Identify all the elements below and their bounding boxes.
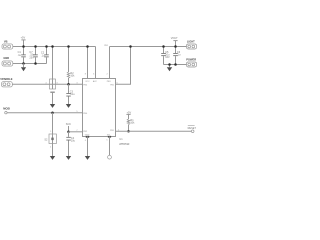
svg-text:MOSI: MOSI: [3, 106, 10, 110]
pin stub OUT (top): [109, 47, 111, 79]
ground arrow below S2: [50, 156, 55, 160]
junction dot VOUT at x=163.5: [162, 45, 165, 48]
svg-text:POWER: POWER: [186, 57, 196, 61]
svg-text:16V: 16V: [165, 56, 170, 59]
capacitor C6: [173, 47, 181, 65]
ground arrow below C4: [66, 156, 71, 160]
junction dot VOUT at riser: [129, 45, 132, 48]
power flag +5V: [21, 36, 26, 46]
net stub MOSI: [3, 106, 82, 114]
wire C4 net to IC: [69, 131, 83, 133]
capacitor C7: [29, 47, 37, 64]
svg-text:RESET: RESET: [188, 127, 197, 130]
svg-text:10u: 10u: [71, 140, 76, 143]
IC U1 (microcontroller): [83, 79, 116, 137]
junction dots rails at x=35.5: [34, 45, 37, 48]
wire output ground rail: [164, 64, 187, 66]
junction dot RESET net: [127, 130, 130, 133]
junction dot VOUT at x=175.5: [174, 45, 177, 48]
pin stub AVCC (top): [95, 47, 97, 79]
ground arrow below S1: [50, 104, 55, 108]
junction dot MOSI net: [51, 111, 54, 114]
capacitor C2: [41, 47, 49, 64]
resistor R2 pullup: [67, 47, 75, 85]
pin GND (bottom): [86, 136, 89, 138]
junction dots rails at x=23.5: [22, 45, 25, 48]
svg-text:SCK: SCK: [66, 123, 71, 126]
svg-text:25V: 25V: [29, 56, 34, 59]
capacitor C5: [161, 47, 170, 65]
junction dot C4 net: [67, 131, 70, 134]
junction dot rail at x=46.5: [45, 45, 48, 48]
ground arrow output: [167, 63, 172, 71]
svg-text:VOUT: VOUT: [171, 37, 178, 40]
junction dot rail at x=68.5: [67, 45, 70, 48]
svg-text:VPADDLE: VPADDLE: [0, 77, 12, 81]
svg-text:VB: VB: [4, 39, 8, 43]
pin XTAL (bottom) with open end: [108, 136, 111, 138]
svg-text:.1u: .1u: [41, 54, 45, 57]
svg-text:.1u: .1u: [177, 54, 181, 57]
net label RESET (overbar): [188, 126, 197, 130]
ground arrow below IC: [85, 156, 90, 160]
wire GND rail: [13, 63, 47, 65]
wire VPADDLE to IC: [12, 83, 82, 85]
net stub RESET (open circle end): [191, 130, 194, 133]
wire +5V rail: [13, 46, 96, 48]
switch S2 (box component): [44, 134, 56, 144]
wire VOUT net: [110, 46, 187, 48]
svg-text:ATTINY13: ATTINY13: [119, 143, 130, 146]
svg-text:GND: GND: [3, 56, 9, 60]
ground (arrow) under GND rail: [21, 64, 26, 72]
ground arrow below C3: [66, 104, 71, 108]
connector J1 VB: [2, 39, 13, 49]
wire RESET net: [116, 130, 192, 132]
capacitor C3: [66, 84, 75, 104]
switch S1 (box component): [45, 79, 58, 89]
junction dot rail at x=87.5: [86, 45, 89, 48]
svg-text:.01u: .01u: [70, 93, 75, 96]
svg-text:AVC: AVC: [93, 80, 98, 83]
pin stub VCC (top): [87, 47, 89, 79]
svg-text:.1u: .1u: [18, 54, 22, 57]
wire riser to S2: [52, 113, 54, 134]
connector J5 POWER: [186, 57, 196, 67]
pin OUT2 (right) wire to VOUT net: [116, 47, 131, 85]
svg-text:LIGHT: LIGHT: [187, 39, 195, 43]
wire riser to switch S1: [52, 47, 54, 80]
resistor R1 (RESET pullup): [127, 114, 135, 131]
capacitor C1: [18, 47, 26, 64]
net label stub (SCK): [66, 123, 71, 132]
power flag VOUT: [171, 37, 178, 47]
connector J4 LIGHT: [187, 39, 197, 49]
svg-text:VCC: VCC: [85, 81, 90, 83]
junction dot rail at x=52.5: [51, 45, 54, 48]
power flag +5V above R1: [126, 111, 131, 114]
junction dot output gnd rail at x=175.5: [174, 63, 177, 66]
svg-text:+5V: +5V: [21, 36, 26, 39]
junction dot paddle net: [67, 83, 70, 86]
connector J3 VPADDLE: [0, 77, 12, 87]
capacitor C4: [66, 132, 75, 156]
svg-text:GND: GND: [85, 134, 90, 136]
connector J2 GND: [2, 56, 13, 66]
capacitor plate under S1: [50, 92, 55, 93]
